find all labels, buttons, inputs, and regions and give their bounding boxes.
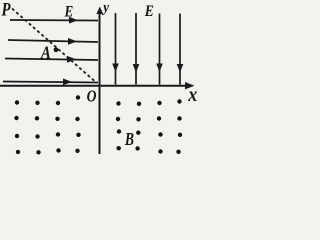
x-axis — [0, 82, 195, 89]
svg-text:x: x — [187, 84, 197, 106]
point A dot — [54, 47, 59, 52]
B-field dots: bottom-right region (4x4 grid) — [116, 99, 182, 154]
B-field dots: bottom-left region (4x4 grid) — [14, 95, 80, 154]
wire: E-field line 1 (second quadrant, horizontal) — [10, 17, 98, 24]
wire: E-field line 2 (first quadrant, vertical) — [133, 13, 140, 85]
dashed trajectory line P to O — [12, 9, 95, 82]
wire: E-field line 3 (second quadrant, horizontal) — [5, 56, 98, 63]
svg-text:E: E — [64, 4, 74, 21]
wire: E-field line 3 (first quadrant, vertical) — [156, 14, 163, 85]
svg-text:O: O — [87, 87, 97, 106]
svg-text:P: P — [1, 0, 11, 20]
paper background — [0, 0, 200, 163]
wire: E-field line 4 (second quadrant, horizontal) — [3, 79, 98, 86]
wire: E-field line 1 (first quadrant, vertical) — [112, 13, 119, 85]
svg-text:B: B — [124, 131, 134, 150]
svg-text:y: y — [101, 0, 110, 15]
wire: E-field line 4 (first quadrant, vertical) — [177, 14, 184, 85]
y-axis — [96, 7, 103, 155]
svg-text:A: A — [40, 42, 51, 63]
svg-text:E: E — [144, 3, 154, 20]
wire: E-field line 2 (second quadrant, horizontal) — [8, 38, 98, 45]
